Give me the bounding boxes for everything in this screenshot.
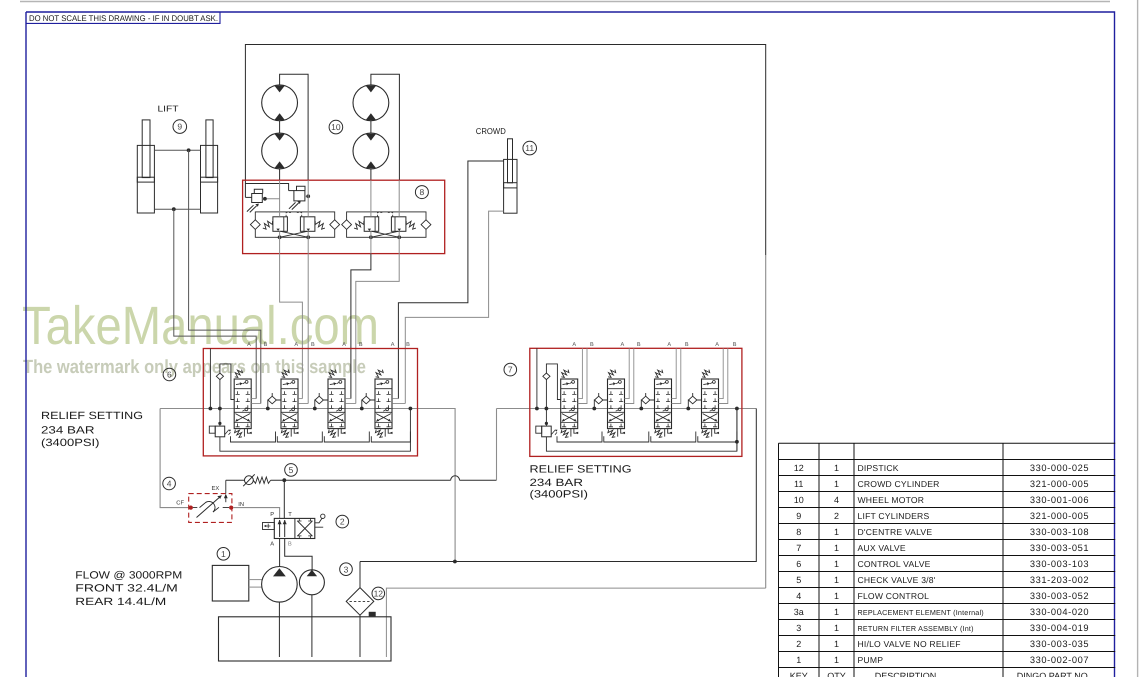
hi-lo valve body: [274, 518, 315, 538]
svg-text:DINGO PART NO.: DINGO PART NO.: [1017, 671, 1091, 677]
aux valve 7 section4 body: [702, 379, 719, 429]
aux valve 7 relief valve: [536, 426, 542, 433]
wire motor4 to section3 B: [356, 254, 399, 404]
aux valve 7 relief to tank gallery: [546, 409, 737, 452]
svg-text:A: A: [391, 342, 395, 348]
wire motor3 to section3 A: [351, 254, 371, 399]
return filter diamond: [346, 588, 374, 616]
pump shaft: [249, 579, 262, 581]
svg-text:REAR 14.4L/M: REAR 14.4L/M: [75, 596, 166, 608]
svg-text:The watermark only appears on: The watermark only appears on this sampl…: [23, 357, 366, 378]
crossover pilot dashed lines: [286, 213, 302, 217]
svg-text:12: 12: [794, 463, 804, 473]
control valve 6 section2 body: [281, 379, 298, 429]
svg-text:2: 2: [834, 511, 839, 521]
crossover cross lines: [281, 231, 309, 237]
svg-text:EX: EX: [212, 486, 220, 492]
dcentre valve 8 red outline: [243, 180, 445, 253]
svg-text:QTY: QTY: [827, 671, 846, 677]
flow control EX riser: [225, 480, 227, 493]
wire tank rail aux valve: [497, 408, 757, 410]
aux valve 7 red outline: [530, 348, 742, 456]
control valve 6 section4 body: [375, 379, 392, 429]
control valve 6 section4 check wires: [362, 393, 375, 409]
aux valve 7 section4 tank foot: [712, 429, 719, 437]
crossover relief valve square B: [391, 217, 406, 232]
crowd cylinder barrel: [504, 159, 517, 213]
wire tank rail to flow control CF: [160, 409, 189, 508]
crossover cross lines: [372, 231, 399, 237]
svg-text:A: A: [621, 342, 625, 348]
control valve 6 section3 spring bottom: [328, 430, 335, 438]
tank: [219, 617, 392, 661]
control valve 6 section2 check wires: [268, 393, 281, 409]
aux valve 7 section2 check diamond: [595, 396, 603, 404]
aux valve 7 section3 check diamond: [642, 396, 650, 404]
wire crowd base-end to control valve section4 B: [405, 211, 503, 403]
control valve 6 section3 body: [328, 379, 345, 429]
wire flow control IN to hi-lo P: [233, 508, 279, 519]
svg-text:B: B: [637, 342, 641, 348]
drawing note box: [26, 12, 220, 23]
svg-text:11: 11: [525, 143, 534, 153]
control valve 6 inlet check wires: [220, 364, 234, 400]
lift cylinder right piston: [201, 177, 218, 182]
wire check valve line: [226, 479, 245, 481]
svg-text:B: B: [406, 342, 410, 348]
svg-text:8: 8: [796, 527, 801, 537]
svg-text:1: 1: [834, 655, 839, 665]
svg-text:A: A: [270, 542, 274, 548]
junction lift base-end: [172, 207, 176, 211]
crossover check diamond left: [342, 220, 352, 230]
filter outlet: [359, 615, 361, 657]
control valve 6 section1 tank foot: [244, 429, 251, 437]
crossover relief valve square A: [364, 217, 379, 232]
crossover pilot dashed lines: [377, 213, 392, 217]
wheel motor M1: [262, 85, 298, 121]
aux valve 7 section1 bottom link: [557, 432, 602, 443]
svg-text:1: 1: [834, 559, 839, 569]
wheel motor M4: [353, 133, 389, 169]
aux valve 7 inlet check diamond: [543, 373, 550, 380]
svg-text:5: 5: [289, 465, 294, 475]
crossing hop over tank drop: [451, 476, 460, 480]
wire lift rod-end manifold: [154, 149, 200, 151]
check valve 5: [245, 476, 254, 485]
wire lift B to control valve section1 B: [189, 150, 261, 403]
aux valve 7 inlet check wires: [546, 364, 560, 400]
wire motor2 to section2 B: [307, 254, 309, 404]
crossover spring left: [263, 221, 273, 229]
svg-text:DIPSTICK: DIPSTICK: [858, 463, 899, 473]
junction check/hi-lo: [282, 478, 286, 482]
svg-text:B: B: [685, 342, 689, 348]
svg-text:5: 5: [796, 575, 801, 585]
svg-text:CROWD: CROWD: [476, 126, 506, 136]
svg-text:6: 6: [796, 559, 801, 569]
svg-text:B: B: [733, 342, 737, 348]
scan edge top: [20, 1, 1110, 3]
wire motor1 to section2 A: [280, 254, 303, 399]
svg-text:330-000-025: 330-000-025: [1030, 463, 1089, 473]
svg-text:1: 1: [834, 607, 839, 617]
control valve 6 section2 spring bottom: [281, 430, 288, 438]
dipstick: [369, 612, 376, 617]
crossover spring right: [315, 221, 325, 229]
wire tank rail control valve: [160, 409, 455, 562]
wire motor line 1 through dcentre: [279, 180, 281, 253]
lift cylinder right rod: [206, 120, 213, 178]
svg-text:11: 11: [794, 479, 803, 489]
svg-text:DO NOT SCALE THIS DRAWING - IF: DO NOT SCALE THIS DRAWING - IF IN DOUBT …: [29, 14, 218, 23]
wire brake valve right to motor line: [305, 195, 308, 197]
control valve 6 section1 bottom link: [231, 432, 276, 443]
key circle 1: [217, 548, 230, 561]
aux valve 7 section3 spring bottom: [655, 430, 662, 438]
svg-text:CROWD CYLINDER: CROWD CYLINDER: [858, 479, 940, 489]
control valve 6 section2 bottom link: [277, 432, 322, 443]
aux valve 7 section4 spring bottom: [702, 430, 709, 438]
aux valve 7 section2 body: [608, 379, 625, 429]
pump suction lines: [278, 602, 280, 657]
wire return line 1 into filter: [359, 562, 361, 588]
svg-text:A: A: [715, 342, 719, 348]
svg-text:234 BAR: 234 BAR: [41, 425, 95, 437]
brake release valve left: [252, 194, 263, 203]
control valve 6 relief valve: [209, 426, 215, 433]
svg-text:AUX VALVE: AUX VALVE: [858, 543, 906, 553]
svg-text:A: A: [247, 342, 251, 348]
lift cylinder right barrel: [201, 145, 218, 213]
aux valve 7 section2 spring bottom: [608, 430, 615, 438]
svg-text:FLOW @ 3000RPM: FLOW @ 3000RPM: [75, 569, 182, 581]
control valve 6 section4 tank foot: [385, 429, 392, 437]
pump 1 (front): [262, 567, 298, 603]
wire brake valve left to motor line: [262, 198, 279, 200]
svg-text:CONTROL VALVE: CONTROL VALVE: [858, 559, 931, 569]
aux valve 7 section3 tank foot: [665, 429, 672, 437]
key circle 9: [173, 120, 187, 134]
svg-text:A: A: [294, 342, 298, 348]
aux valve 7 section2 spring top: [608, 370, 616, 378]
svg-text:330-003-108: 330-003-108: [1030, 527, 1089, 537]
crossover check diamond left: [250, 220, 260, 230]
parts table grid: [779, 443, 1116, 667]
key circle 5: [285, 464, 298, 477]
flow control symbol: [197, 496, 222, 518]
svg-text:CF: CF: [176, 499, 184, 506]
control valve 6 section3 tank foot: [338, 429, 345, 437]
wire motor line 2 through dcentre: [307, 180, 309, 253]
wire aux return to filter: [360, 409, 756, 562]
aux valve work-port wires: [578, 348, 583, 398]
svg-text:A: A: [667, 342, 671, 348]
svg-text:B: B: [359, 342, 363, 348]
svg-text:330-003-103: 330-003-103: [1030, 559, 1089, 569]
svg-text:330-004-020: 330-004-020: [1030, 607, 1089, 617]
wheel motor M2: [262, 133, 298, 169]
svg-text:2: 2: [340, 517, 345, 527]
svg-text:B: B: [311, 342, 315, 348]
svg-text:1: 1: [834, 623, 839, 633]
hi-lo lever: [315, 518, 323, 527]
wire motor line 4 through dcentre: [398, 180, 400, 253]
crossover relief frame: [255, 212, 334, 237]
lift cylinder left barrel: [137, 145, 154, 213]
svg-text:1: 1: [834, 543, 839, 553]
control valve 6 section2 spring top: [282, 370, 290, 378]
svg-text:330-001-006: 330-001-006: [1030, 495, 1089, 505]
svg-text:RELIEF SETTING: RELIEF SETTING: [41, 410, 143, 422]
wire motor line 3 through dcentre: [370, 180, 372, 253]
svg-text:330-003-035: 330-003-035: [1030, 639, 1089, 649]
control valve 6 section4 check diamond: [362, 396, 370, 404]
crossover relief valve square B: [300, 217, 315, 232]
wire crowd rod-end to control valve section4 A: [398, 161, 503, 399]
svg-text:4: 4: [796, 591, 801, 601]
control valve 6 red outline: [203, 349, 417, 456]
crossover check diamond right: [330, 220, 340, 230]
svg-text:7: 7: [508, 365, 513, 375]
wire motor loop 1: [280, 74, 309, 180]
wire to hi-lo valve and aux feed: [271, 479, 451, 481]
svg-text:330-003-052: 330-003-052: [1030, 591, 1089, 601]
control valve 6 inlet check diamond: [216, 373, 223, 380]
control valve 6 section2 check diamond: [268, 396, 276, 404]
svg-text:CHECK VALVE 3/8': CHECK VALVE 3/8': [858, 575, 936, 585]
aux valve 7 section3 spring top: [655, 370, 663, 378]
lift cylinder left rod: [142, 120, 150, 178]
wire motor loop 2: [371, 74, 400, 180]
svg-text:T: T: [288, 512, 292, 518]
svg-text:LIFT CYLINDERS: LIFT CYLINDERS: [858, 511, 930, 521]
aux valve 7 section3 check wires: [641, 393, 654, 409]
svg-text:RELIEF SETTING: RELIEF SETTING: [530, 464, 632, 476]
svg-text:6: 6: [167, 370, 172, 380]
aux valve 7 feed stub: [536, 348, 538, 408]
svg-text:1: 1: [796, 655, 801, 665]
svg-text:321-000-005: 321-000-005: [1030, 511, 1089, 521]
aux valve 7 section4 spring top: [702, 370, 710, 378]
key circle 3: [340, 563, 353, 576]
control valve 6 feed stub: [209, 349, 211, 409]
svg-text:3a: 3a: [794, 607, 804, 617]
aux valve 7 section1 spring bottom: [561, 430, 568, 438]
control valve work-port stubs: [251, 398, 256, 400]
wire lift A to control valve section1 A: [174, 209, 256, 398]
svg-text:321-000-005: 321-000-005: [1030, 479, 1089, 489]
svg-text:PUMP: PUMP: [858, 655, 884, 665]
svg-text:P: P: [270, 512, 274, 518]
svg-text:8: 8: [420, 187, 425, 197]
key circle 2: [336, 515, 349, 528]
svg-text:1: 1: [834, 575, 839, 585]
pump 2 (rear): [299, 570, 324, 595]
svg-text:B: B: [264, 342, 268, 348]
crossover check diamond right: [421, 220, 431, 230]
svg-text:330-002-007: 330-002-007: [1030, 655, 1089, 665]
svg-text:9: 9: [796, 511, 801, 521]
svg-text:1: 1: [221, 549, 226, 559]
control valve 6 section1 body: [234, 379, 251, 429]
aux valve 7 section3 body: [655, 379, 672, 429]
wire hi-lo B to pump2: [285, 539, 312, 570]
aux valve 7 section2 bottom link: [604, 432, 649, 443]
aux valve 7 section4 bottom link: [698, 432, 737, 443]
crowd cylinder piston: [504, 183, 517, 188]
control valve 6 section4 spring top: [376, 370, 384, 378]
key circle 10: [329, 120, 343, 134]
aux valve 7 section1 spring top: [561, 370, 569, 378]
svg-text:TakeManual.com: TakeManual.com: [22, 296, 379, 356]
svg-text:1: 1: [834, 527, 839, 537]
aux valve tank return corner: [736, 409, 738, 451]
svg-text:12: 12: [374, 589, 384, 599]
crossover relief valve square A: [273, 217, 288, 232]
svg-text:KEY: KEY: [790, 671, 808, 677]
key circle 12: [372, 587, 385, 600]
svg-text:7: 7: [796, 543, 801, 553]
lift cylinder left piston: [137, 177, 154, 182]
flow control port dots: [189, 506, 193, 510]
wire hi-lo A to pump1: [279, 539, 281, 567]
wire: brake/case-drain big loop: [245, 45, 765, 256]
brake release valve right: [294, 191, 305, 201]
svg-text:4: 4: [167, 479, 172, 489]
svg-text:2: 2: [796, 639, 801, 649]
wheel motor M3: [353, 85, 389, 121]
crossover spring right: [406, 221, 416, 229]
control valve 6 section4 bottom link: [371, 432, 410, 443]
key circle 6: [163, 368, 176, 381]
svg-text:1: 1: [834, 591, 839, 601]
control valve 6 relief to tank gallery: [220, 409, 411, 452]
brake valve feed wires: [245, 196, 251, 198]
control valve 6 section3 check wires: [315, 393, 328, 409]
svg-text:1: 1: [834, 463, 839, 473]
junction lift rod-end: [187, 148, 191, 152]
svg-text:HI/LO VALVE NO RELIEF: HI/LO VALVE NO RELIEF: [858, 639, 961, 649]
key circle 7: [504, 363, 517, 376]
control valve 6 section3 bottom link: [324, 432, 369, 443]
svg-text:DESCRIPTION: DESCRIPTION: [875, 671, 937, 677]
key circle 11: [523, 141, 537, 155]
svg-text:B: B: [288, 542, 292, 548]
control valve 6 section3 spring top: [329, 370, 337, 378]
svg-text:WHEEL MOTOR: WHEEL MOTOR: [858, 495, 925, 505]
crowd cylinder rod: [508, 139, 513, 183]
control valve 6 section4 spring bottom: [375, 430, 382, 438]
svg-text:1: 1: [834, 479, 839, 489]
svg-text:1: 1: [834, 639, 839, 649]
svg-text:330-003-051: 330-003-051: [1030, 543, 1089, 553]
prime mover box: [212, 565, 249, 601]
flow control red dashed box: [189, 494, 232, 523]
svg-text:4: 4: [834, 495, 839, 505]
svg-text:A: A: [572, 342, 576, 348]
wire junction5 to hi-lo T: [283, 480, 285, 518]
hi-lo pilot box: [263, 523, 275, 530]
svg-text:234 BAR: 234 BAR: [530, 477, 584, 489]
aux valve 7 section2 tank foot: [618, 429, 625, 437]
svg-text:(3400PSI): (3400PSI): [530, 489, 589, 501]
check valve spring: [253, 477, 270, 483]
scan edge right: [1137, 0, 1139, 677]
control valve 6 section1 spring bottom: [235, 430, 242, 438]
aux valve 7 section4 check diamond: [689, 396, 697, 404]
svg-text:REPLACEMENT ELEMENT (Internal): REPLACEMENT ELEMENT (Internal): [858, 608, 984, 617]
svg-text:331-203-002: 331-203-002: [1030, 575, 1089, 585]
wire: return line 2 to tank: [386, 588, 765, 657]
svg-text:B: B: [590, 342, 594, 348]
svg-text:LIFT: LIFT: [158, 103, 179, 113]
svg-text:10: 10: [794, 495, 804, 505]
svg-text:(3400PSI): (3400PSI): [41, 437, 100, 449]
control valve 6 section2 tank foot: [291, 429, 298, 437]
svg-text:3: 3: [344, 564, 349, 574]
crossover spring left: [354, 221, 364, 229]
key circle 8: [415, 186, 428, 199]
aux valve 7 section1 body: [561, 379, 578, 429]
wire lift base-end manifold: [154, 208, 200, 210]
svg-text:D'CENTRE VALVE: D'CENTRE VALVE: [858, 527, 933, 537]
aux valve 7 section1 tank foot: [571, 429, 578, 437]
key circle 4: [163, 477, 176, 490]
aux valve 7 section2 check wires: [594, 393, 607, 409]
svg-text:3: 3: [796, 623, 801, 633]
control valve 6 section1 spring top: [235, 370, 243, 378]
svg-text:A: A: [342, 342, 346, 348]
crossover relief frame: [347, 212, 426, 237]
svg-text:330-004-019: 330-004-019: [1030, 623, 1089, 633]
control valve 6 section3 check diamond: [315, 396, 323, 404]
svg-text:9: 9: [177, 122, 182, 132]
svg-text:RETURN FILTER ASSEMBLY (Int): RETURN FILTER ASSEMBLY (Int): [858, 624, 974, 633]
svg-text:FRONT 32.4L/M: FRONT 32.4L/M: [75, 583, 178, 595]
aux valve 7 section4 check wires: [688, 393, 701, 409]
hi-lo cross compartment: [298, 521, 313, 536]
svg-text:FLOW CONTROL: FLOW CONTROL: [858, 591, 930, 601]
svg-text:10: 10: [331, 122, 341, 132]
aux valve 7 section3 bottom link: [651, 432, 696, 443]
hi-lo straight arrows: [280, 520, 285, 537]
